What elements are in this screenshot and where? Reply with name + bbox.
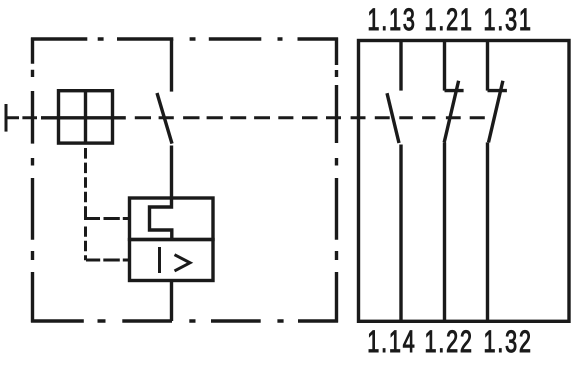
magnetic release symbol I> : chevron (175, 255, 191, 271)
linkage wire: dashed branch to magnetic release (86, 259, 130, 262)
aux contact 1.31-1.32 seat bar (NC) (488, 89, 507, 92)
label terminal 1.31 (485, 8, 530, 30)
thermal overload element (hook) (150, 198, 172, 240)
enclosure Q1 dash-dot border: left side (31, 38, 34, 323)
magnetic release symbol I> : I bar (158, 247, 161, 273)
wire: main conductor from top border to contact (170, 39, 173, 92)
label terminal 1.13 (369, 8, 414, 30)
aux contact 1.31-1.32 top terminal wire (486, 41, 489, 91)
actuator linkage wire (horizontal dashed, left of square) (7, 116, 37, 119)
wire: contact to trip block (170, 146, 173, 199)
aux contact 1.13-1.14 top terminal wire (399, 41, 402, 91)
aux contact 1.21-1.22 bottom terminal wire (443, 142, 446, 321)
enclosure Q1 dash-dot border: right side (335, 38, 338, 323)
main contact blade (NO) (157, 93, 172, 144)
enclosure Q1 dash-dot border: top side (31, 37, 338, 40)
linkage wire: vertical dashed from square to releases (84, 148, 87, 260)
label terminal 1.14 (369, 331, 414, 352)
aux contact 1.21-1.22 top terminal wire (443, 41, 446, 91)
aux contact 1.31-1.32 bottom terminal wire (486, 142, 489, 321)
actuator symbol: square with cross (manual drive) (59, 91, 113, 143)
aux contact 1.13-1.14 blade (NO) (387, 93, 399, 143)
thermal overload release box (130, 198, 214, 240)
linkage wire: horizontal dashed, square to main contact and beyond (135, 116, 485, 119)
aux contact 1.21-1.22 seat bar (NC) (445, 89, 464, 92)
aux contact 1.21-1.22 blade (NC) (444, 81, 458, 143)
wire: trip block to bottom border (170, 281, 173, 322)
wire: solid horizontal through square (41, 116, 126, 119)
label terminal 1.21 (426, 8, 471, 30)
enclosure Q1 dash-dot border: bottom side (31, 319, 338, 322)
magnetic overcurrent release box (130, 240, 214, 281)
linkage wire: dashed branch to thermal release (87, 217, 130, 220)
label terminal 1.22 (426, 330, 471, 352)
aux contact 1.13-1.14 bottom terminal wire (399, 145, 402, 322)
label terminal 1.32 (485, 330, 530, 352)
auxiliary contact block border (359, 41, 570, 322)
actuator T-handle bar (5, 104, 8, 132)
aux contact 1.31-1.32 blade (NC) (489, 81, 503, 143)
